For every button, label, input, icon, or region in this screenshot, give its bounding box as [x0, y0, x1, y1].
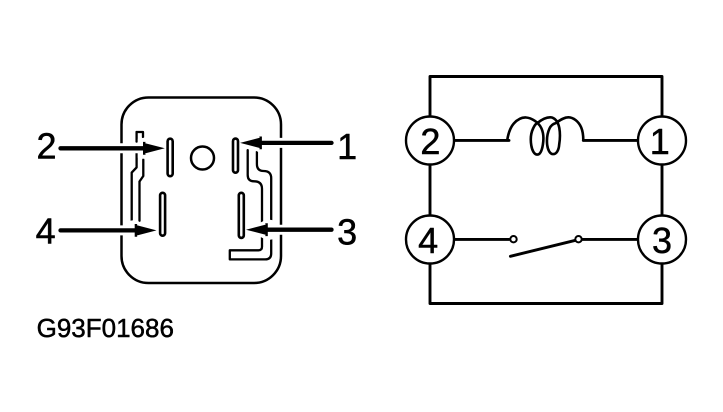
arrow to pin 1 [240, 132, 334, 153]
switch contact right [575, 236, 581, 242]
wire node2 to coil [430, 139, 509, 142]
keying rib right [230, 150, 271, 259]
svg-text:1: 1 [650, 121, 670, 162]
switch blade [510, 240, 576, 256]
arrow to pin 3 [246, 219, 335, 240]
svg-text:2: 2 [420, 121, 440, 162]
pin slot 4 [160, 193, 165, 236]
schematic frame wire [430, 77, 662, 304]
svg-text:G93F01686: G93F01686 [37, 313, 174, 343]
wire switch to node3 [583, 238, 662, 241]
pin slot 2 [168, 139, 173, 177]
arrow to pin 4 [58, 220, 157, 241]
pin slot 1 [233, 139, 238, 173]
wire node4 to switch [430, 238, 509, 241]
switch contact left [510, 236, 516, 242]
connector body outline [122, 98, 282, 284]
svg-text:4: 4 [418, 220, 438, 261]
terminal 2 [406, 117, 454, 165]
svg-text:2: 2 [36, 126, 56, 167]
svg-text:1: 1 [337, 126, 357, 167]
terminal 4 [406, 216, 454, 264]
pin slot 3 [239, 193, 244, 238]
svg-text:3: 3 [652, 220, 672, 261]
relay coil L [507, 117, 583, 154]
keying rib left [132, 132, 144, 221]
svg-text:3: 3 [337, 211, 357, 252]
svg-text:4: 4 [36, 211, 56, 252]
center hole [191, 147, 214, 170]
arrow to pin 2 [58, 138, 165, 159]
wire coil to node1 [583, 139, 662, 142]
terminal 3 [638, 216, 686, 264]
terminal 1 [638, 117, 686, 165]
